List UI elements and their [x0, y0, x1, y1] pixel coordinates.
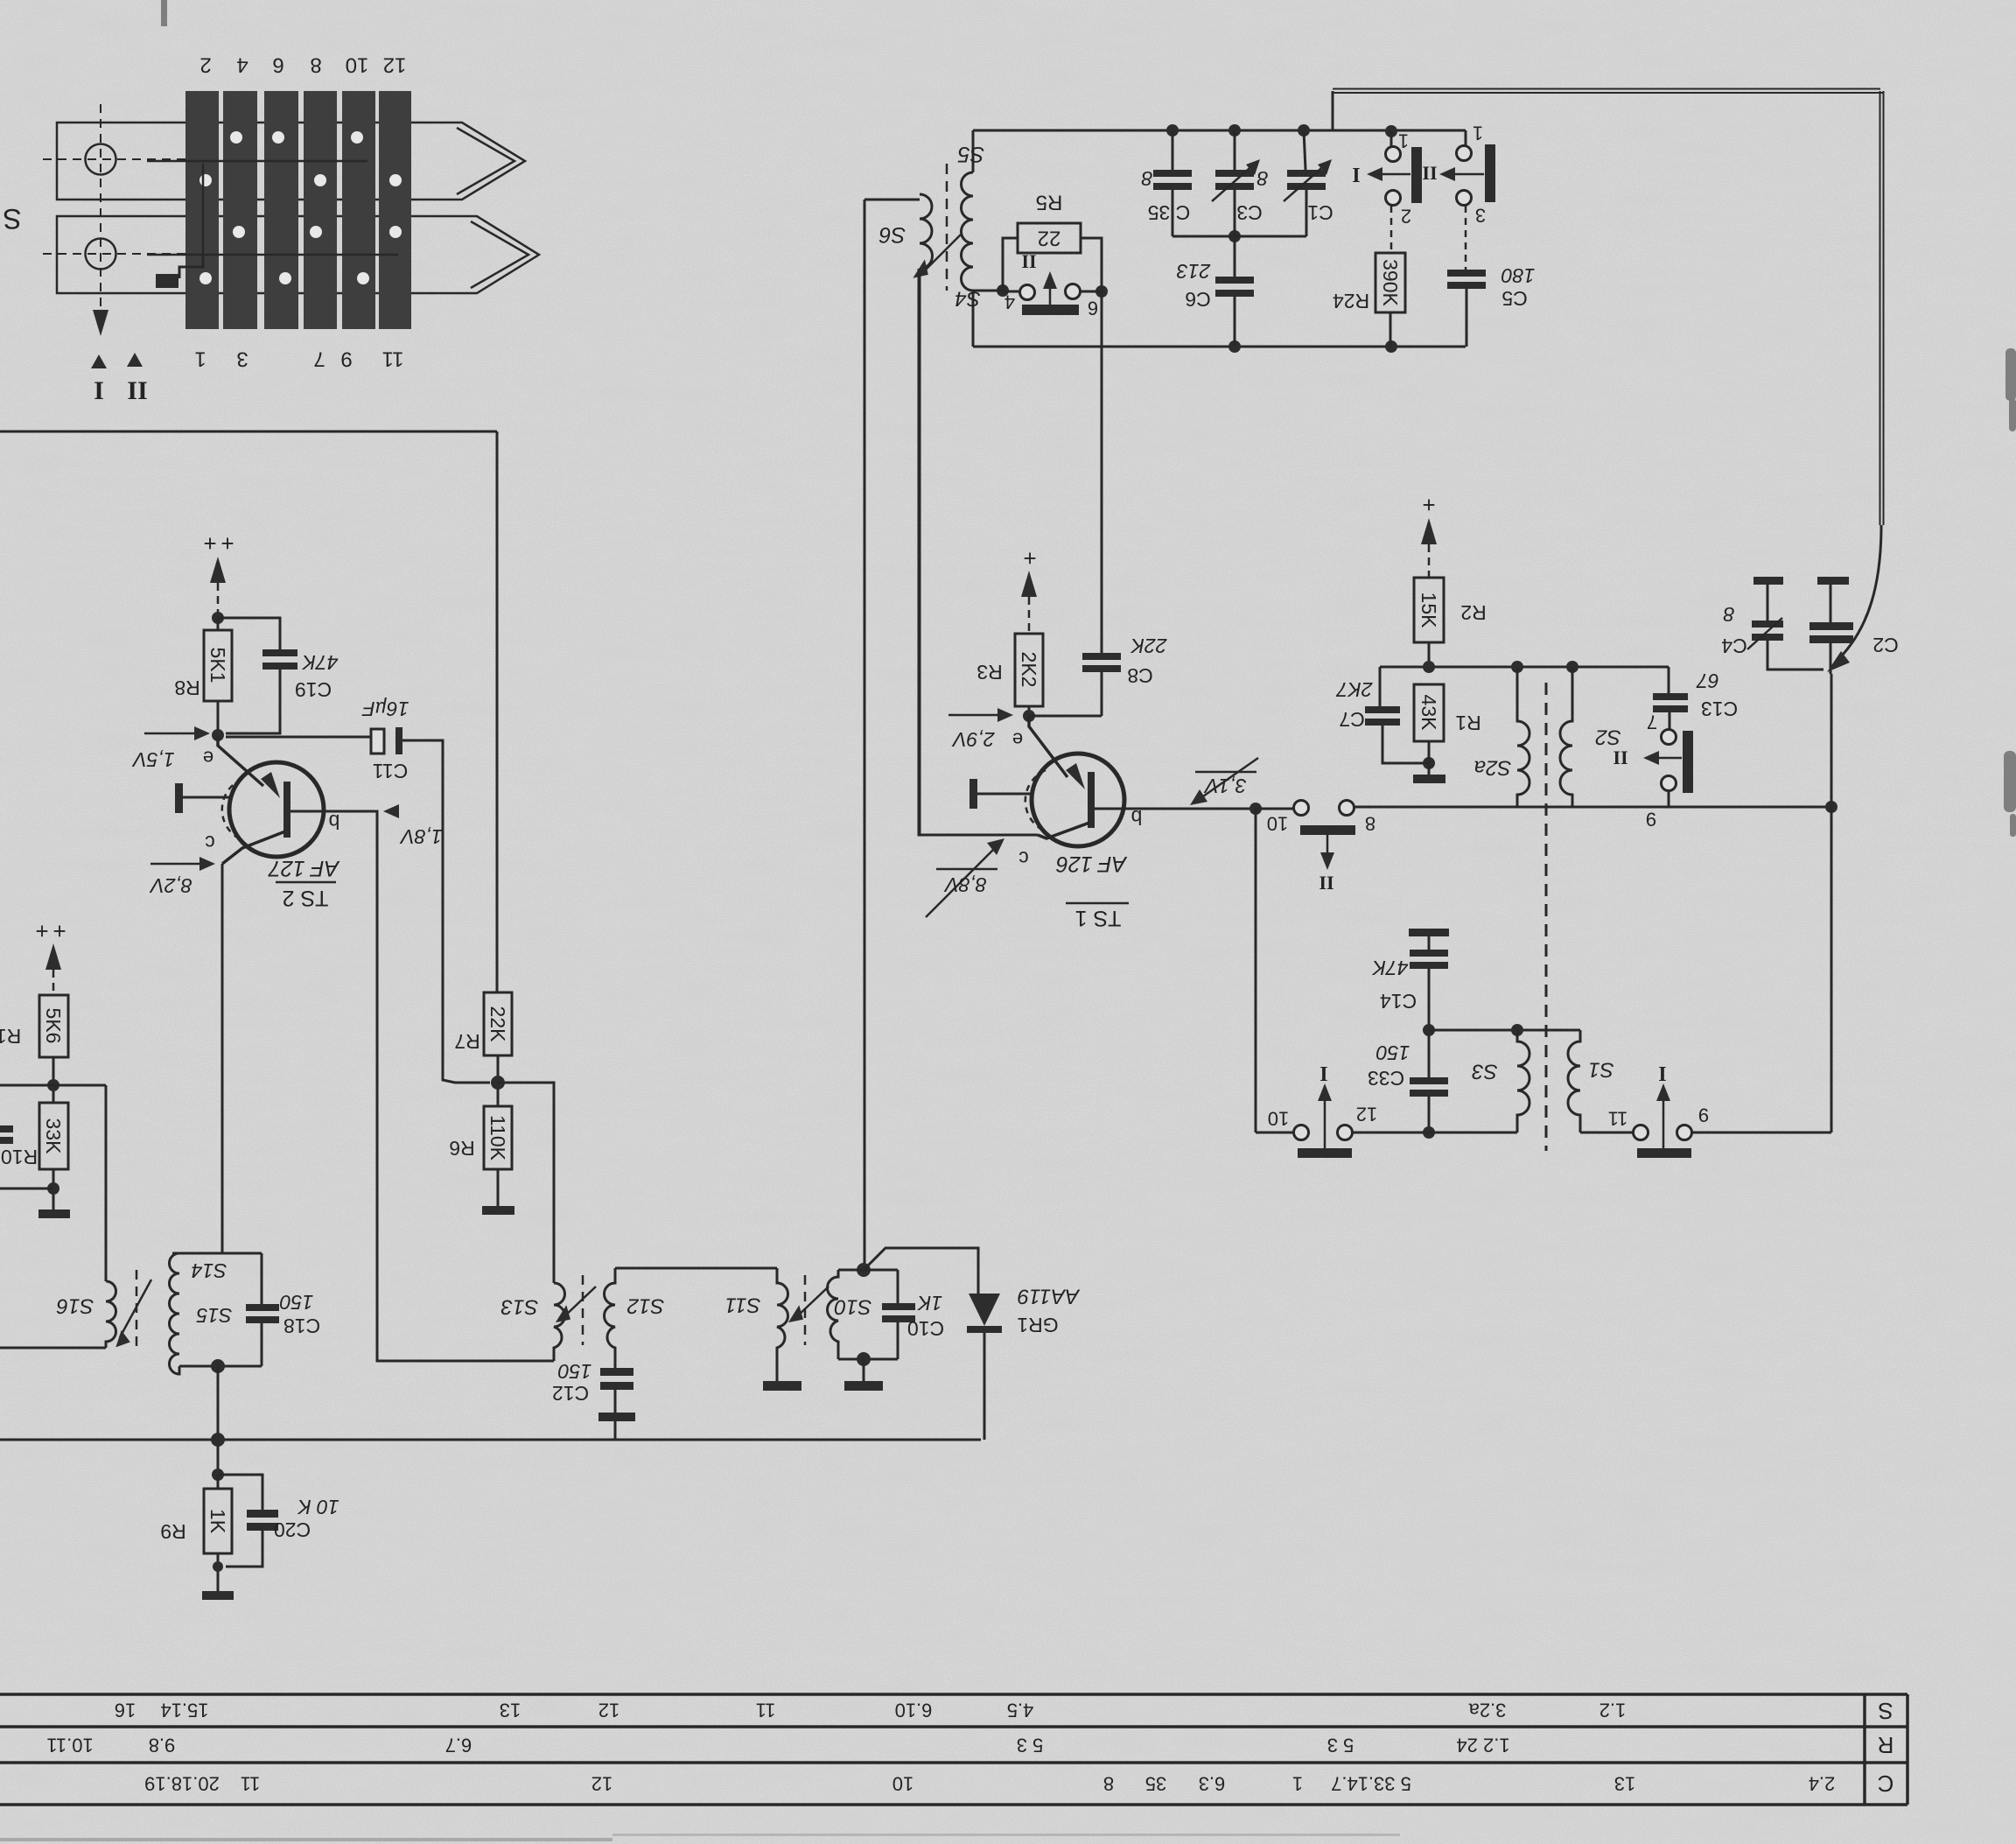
svg-text:7: 7 — [313, 347, 325, 371]
svg-text:150: 150 — [558, 1360, 592, 1383]
svg-text:TS 2: TS 2 — [283, 886, 329, 910]
svg-text:S: S — [3, 203, 21, 235]
svg-text:R7: R7 — [454, 1030, 479, 1053]
svg-text:C2: C2 — [1872, 634, 1898, 656]
svg-text:10.11: 10.11 — [46, 1735, 93, 1756]
svg-text:10: 10 — [892, 1773, 913, 1795]
svg-text:4: 4 — [236, 53, 248, 77]
svg-text:+: + — [203, 530, 216, 557]
svg-text:R11: R11 — [0, 1025, 21, 1048]
svg-text:I: I — [1319, 1062, 1327, 1084]
svg-text:5 3: 5 3 — [1017, 1735, 1044, 1756]
svg-text:e: e — [1012, 729, 1023, 751]
svg-text:R9: R9 — [160, 1520, 185, 1543]
svg-text:12: 12 — [598, 1700, 619, 1721]
svg-text:213: 213 — [1177, 260, 1212, 283]
svg-text:5 33.14.7: 5 33.14.7 — [1331, 1773, 1411, 1795]
svg-text:67: 67 — [1696, 670, 1719, 692]
svg-text:I: I — [1658, 1062, 1666, 1084]
svg-text:4.5: 4.5 — [1007, 1700, 1034, 1721]
svg-text:8: 8 — [1365, 813, 1375, 835]
svg-text:6.7: 6.7 — [445, 1735, 472, 1756]
svg-text:S11: S11 — [725, 1294, 761, 1317]
svg-text:AF 126: AF 126 — [1056, 852, 1128, 876]
svg-text:2: 2 — [1401, 206, 1411, 228]
svg-text:2K7: 2K7 — [1335, 678, 1373, 701]
svg-text:1: 1 — [1398, 130, 1409, 152]
svg-text:GR1: GR1 — [1017, 1314, 1058, 1336]
svg-text:C14: C14 — [1380, 990, 1417, 1013]
svg-text:13: 13 — [500, 1700, 521, 1721]
svg-text:1: 1 — [1473, 123, 1483, 144]
svg-text:R: R — [1878, 1732, 1894, 1758]
svg-text:3.2a: 3.2a — [1468, 1700, 1507, 1721]
svg-text:c: c — [205, 831, 215, 854]
svg-text:1K: 1K — [206, 1509, 229, 1534]
svg-text:S2a: S2a — [1474, 756, 1512, 780]
svg-text:e: e — [203, 747, 213, 769]
svg-text:c: c — [1018, 847, 1029, 870]
svg-text:6: 6 — [1088, 298, 1098, 319]
svg-text:+: + — [1023, 545, 1036, 571]
svg-text:150: 150 — [280, 1291, 314, 1314]
svg-text:C 35: C 35 — [1148, 201, 1191, 224]
svg-text:R6: R6 — [449, 1137, 474, 1160]
svg-text:AA119: AA119 — [1018, 1285, 1081, 1308]
svg-text:13: 13 — [1614, 1773, 1635, 1795]
svg-text:C11: C11 — [373, 760, 409, 782]
svg-text:8,2V: 8,2V — [149, 874, 192, 897]
svg-text:S12: S12 — [627, 1294, 665, 1318]
svg-text:C12: C12 — [552, 1382, 589, 1405]
svg-text:1,5V: 1,5V — [131, 748, 175, 771]
svg-text:C5: C5 — [1501, 287, 1527, 310]
svg-text:+: + — [52, 918, 66, 944]
svg-text:S2: S2 — [1595, 726, 1620, 749]
svg-text:3: 3 — [1475, 205, 1486, 227]
svg-text:16µF: 16µF — [361, 698, 409, 720]
svg-text:+: + — [35, 918, 48, 944]
svg-text:9.8: 9.8 — [149, 1735, 176, 1756]
svg-text:10: 10 — [346, 53, 369, 77]
svg-text:1: 1 — [194, 347, 206, 371]
svg-text:S15: S15 — [196, 1304, 232, 1327]
svg-text:C8: C8 — [1127, 664, 1152, 687]
svg-text:C33: C33 — [1368, 1067, 1404, 1090]
svg-text:2K2: 2K2 — [1018, 652, 1040, 688]
svg-text:C3: C3 — [1236, 201, 1262, 224]
svg-text:S16: S16 — [56, 1294, 94, 1318]
svg-text:C19: C19 — [295, 678, 332, 701]
svg-text:1K: 1K — [916, 1292, 942, 1315]
svg-text:C7: C7 — [1339, 708, 1364, 731]
svg-text:150: 150 — [1376, 1041, 1410, 1064]
svg-text:43K: 43K — [1417, 695, 1440, 732]
svg-text:15K: 15K — [1417, 592, 1440, 629]
svg-text:8,8V: 8,8V — [943, 873, 987, 896]
svg-text:11: 11 — [1608, 1108, 1628, 1130]
svg-text:8: 8 — [1103, 1773, 1114, 1795]
svg-text:S3: S3 — [1472, 1060, 1498, 1083]
svg-text:R3: R3 — [976, 661, 1002, 684]
svg-text:I: I — [94, 376, 104, 405]
svg-text:11: 11 — [756, 1700, 776, 1721]
svg-text:3,1V: 3,1V — [1203, 775, 1247, 797]
svg-text:S13: S13 — [500, 1295, 538, 1319]
svg-text:47K: 47K — [301, 651, 339, 674]
svg-text:R8: R8 — [174, 677, 199, 699]
svg-text:2: 2 — [199, 53, 211, 77]
svg-text:5 3: 5 3 — [1327, 1735, 1354, 1756]
svg-text:II: II — [1422, 163, 1437, 185]
svg-text:b: b — [329, 810, 340, 833]
svg-text:5K6: 5K6 — [42, 1008, 65, 1044]
svg-text:II: II — [1319, 873, 1333, 894]
svg-text:8: 8 — [1256, 167, 1268, 190]
svg-text:II: II — [1613, 747, 1627, 769]
svg-text:9: 9 — [1698, 1104, 1709, 1126]
svg-text:15.14: 15.14 — [160, 1700, 208, 1721]
svg-text:AF 127: AF 127 — [268, 856, 340, 880]
svg-text:2.4: 2.4 — [1809, 1773, 1836, 1795]
svg-text:b: b — [1131, 806, 1143, 829]
svg-text:+: + — [1422, 492, 1435, 518]
svg-text:6: 6 — [272, 53, 283, 77]
svg-text:4: 4 — [1004, 291, 1015, 313]
svg-text:C20: C20 — [274, 1518, 311, 1541]
svg-text:S6: S6 — [879, 222, 906, 247]
svg-text:II: II — [1021, 251, 1036, 273]
svg-text:R10: R10 — [1, 1146, 38, 1168]
svg-text:R1: R1 — [1455, 712, 1480, 734]
svg-text:C6: C6 — [1185, 288, 1210, 311]
svg-text:10: 10 — [1267, 813, 1288, 835]
svg-text:12: 12 — [1356, 1104, 1377, 1125]
svg-text:C10: C10 — [907, 1317, 944, 1340]
svg-text:22K: 22K — [1130, 635, 1168, 657]
svg-text:390K: 390K — [1379, 259, 1402, 306]
svg-text:6.3: 6.3 — [1199, 1773, 1226, 1795]
svg-text:5K1: 5K1 — [206, 648, 229, 684]
svg-text:6.10: 6.10 — [895, 1700, 933, 1721]
svg-text:2,9V: 2,9V — [951, 728, 996, 751]
svg-text:I: I — [1352, 163, 1360, 186]
svg-text:1.2 24: 1.2 24 — [1456, 1735, 1509, 1756]
svg-text:C18: C18 — [283, 1315, 320, 1337]
svg-text:R24: R24 — [1333, 290, 1369, 312]
svg-text:7: 7 — [1647, 712, 1657, 733]
svg-text:1.2: 1.2 — [1599, 1700, 1627, 1721]
svg-text:35: 35 — [1145, 1773, 1166, 1795]
svg-text:16: 16 — [115, 1700, 136, 1721]
svg-text:S: S — [1878, 1698, 1893, 1724]
svg-text:12: 12 — [591, 1773, 612, 1795]
svg-text:8: 8 — [310, 53, 321, 77]
svg-text:S4: S4 — [955, 287, 980, 311]
svg-text:S1: S1 — [1588, 1058, 1613, 1082]
svg-text:22K: 22K — [486, 1006, 509, 1043]
svg-text:11: 11 — [382, 347, 404, 371]
svg-text:33K: 33K — [42, 1118, 65, 1155]
svg-text:R5: R5 — [1036, 191, 1063, 214]
svg-text:12: 12 — [383, 53, 407, 77]
svg-text:TS 1: TS 1 — [1075, 906, 1122, 930]
svg-text:II: II — [127, 376, 147, 405]
svg-text:C1: C1 — [1307, 201, 1333, 224]
svg-text:10 K: 10 K — [297, 1496, 339, 1518]
svg-text:C4: C4 — [1721, 635, 1747, 657]
svg-text:20.18.19: 20.18.19 — [144, 1773, 220, 1795]
svg-text:1: 1 — [1292, 1773, 1303, 1795]
svg-text:S14: S14 — [192, 1259, 227, 1282]
svg-text:R2: R2 — [1460, 601, 1486, 624]
svg-text:3: 3 — [236, 347, 248, 371]
svg-text:47K: 47K — [1371, 957, 1409, 979]
svg-text:8: 8 — [1723, 603, 1734, 626]
svg-text:8: 8 — [1141, 167, 1152, 190]
svg-text:9: 9 — [340, 347, 352, 371]
svg-text:110K: 110K — [486, 1115, 509, 1161]
svg-text:9: 9 — [1646, 809, 1656, 831]
svg-text:S10: S10 — [834, 1295, 871, 1319]
svg-text:22: 22 — [1038, 227, 1061, 250]
svg-text:+: + — [220, 530, 234, 557]
svg-text:S5: S5 — [958, 142, 985, 166]
svg-text:C13: C13 — [1701, 698, 1738, 720]
svg-text:180: 180 — [1501, 264, 1536, 287]
svg-text:C: C — [1878, 1770, 1894, 1797]
svg-text:10: 10 — [1268, 1108, 1289, 1130]
svg-text:11: 11 — [241, 1773, 261, 1795]
svg-text:1,8V: 1,8V — [399, 825, 443, 848]
